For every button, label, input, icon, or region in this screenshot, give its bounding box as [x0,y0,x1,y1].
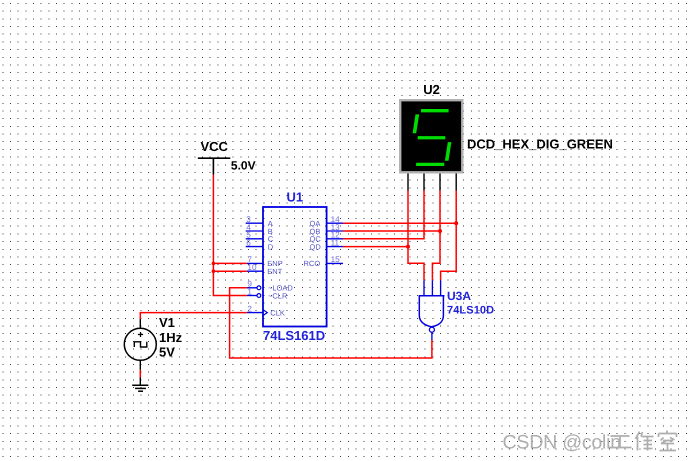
U1 pin 15 (RCO) [304,255,344,268]
wire ENP branch [213,262,247,264]
wire V1 to CLK [140,313,247,319]
gate U3A input pin 3 [440,280,442,296]
wire QA row [343,222,456,224]
junction VCC rail / ENT [212,269,216,273]
svg-text:15: 15 [331,255,341,264]
svg-text:74LS161D: 74LS161D [263,328,325,343]
gate U3A output pin [431,332,433,340]
source V1 [124,319,156,370]
wire display pin1 column to NAND input 1 [408,191,424,281]
svg-text:ENT: ENT [267,267,282,276]
wire QB row [343,230,440,232]
svg-text:U3A: U3A [447,289,471,303]
segment d (bottom) [416,163,444,166]
segment g (middle) [418,136,446,139]
U1 pin 7 (ENP) [247,255,283,268]
svg-text:11: 11 [331,238,340,247]
svg-text:CLK: CLK [270,308,285,317]
svg-text:U1: U1 [287,190,304,205]
svg-text:1Hz: 1Hz [159,330,183,345]
svg-text:U2: U2 [423,82,440,97]
U1 pin 10 (ENT) [247,263,283,276]
svg-text:5V: 5V [159,345,175,360]
svg-text:RCO: RCO [304,259,321,268]
segment a (top) [421,109,449,112]
svg-text:2: 2 [247,304,252,313]
svg-text:QD: QD [310,242,322,251]
svg-text:~CLR: ~CLR [268,291,288,300]
svg-text:5.0V: 5.0V [231,159,256,173]
watermark [503,431,677,454]
wire display pin3 column to NAND input 2 [432,191,440,281]
U1 pin 12 (QC) [310,231,344,244]
wire QD row [343,246,408,248]
U1 pin 5 (C) [246,231,274,244]
junction QB / pin3 column [438,229,442,233]
gate U3A input pin 1 [423,280,425,296]
gate U3A input pin 2 [431,280,433,296]
svg-text:1: 1 [247,287,252,296]
wire QC row [343,191,424,239]
wire V1 to ground [139,370,141,378]
display pin 1 stub [407,174,409,191]
svg-text:74LS10D: 74LS10D [447,305,494,317]
U1 pin 9 (~LOAD) [247,280,293,293]
wire NAND output to ~LOAD [230,288,432,358]
U1 pin 4 (B) [246,223,273,236]
gate U3A output bubble [429,327,434,332]
junction QD / pin1 column [406,245,410,249]
svg-text:10: 10 [247,263,257,272]
U1 pin 1 (~CLR) [247,287,288,300]
U1 pin 2 (CLK) [247,304,285,317]
U1 pin 6 (D) [246,238,274,251]
wire VCC rail to ~CLR [213,175,247,296]
U1 pin 3 (A) [246,215,273,228]
svg-text:V1: V1 [159,315,175,330]
display pin 3 stub [439,174,441,191]
junction VCC rail / ENP [212,262,216,266]
svg-text:VCC: VCC [201,139,229,154]
svg-text:6: 6 [246,238,251,247]
IC U1 body [263,207,327,327]
svg-text:D: D [268,242,274,251]
wire display pin4 column to NAND input 3 [441,191,457,281]
display pin 2 stub [423,174,425,191]
ground [132,378,148,392]
junction QA / pin4 column [454,221,458,225]
U1 pin 13 (QB) [310,223,344,236]
wire ENT branch [213,270,247,272]
U1 pin 14 (QA) [310,215,344,228]
U1 pin 11 (QD) [310,238,344,251]
power symbol VCC [198,139,231,175]
segment c (bottom-right) [445,142,452,161]
svg-text:DCD_HEX_DIG_GREEN: DCD_HEX_DIG_GREEN [467,137,613,152]
segment f (top-left) [413,114,420,133]
gate U3A body (3-input NAND) [419,296,445,327]
svg-text:CSDN @colin: CSDN @colin [503,431,621,453]
display U2 body [400,100,462,172]
display pin 4 stub [455,174,457,191]
